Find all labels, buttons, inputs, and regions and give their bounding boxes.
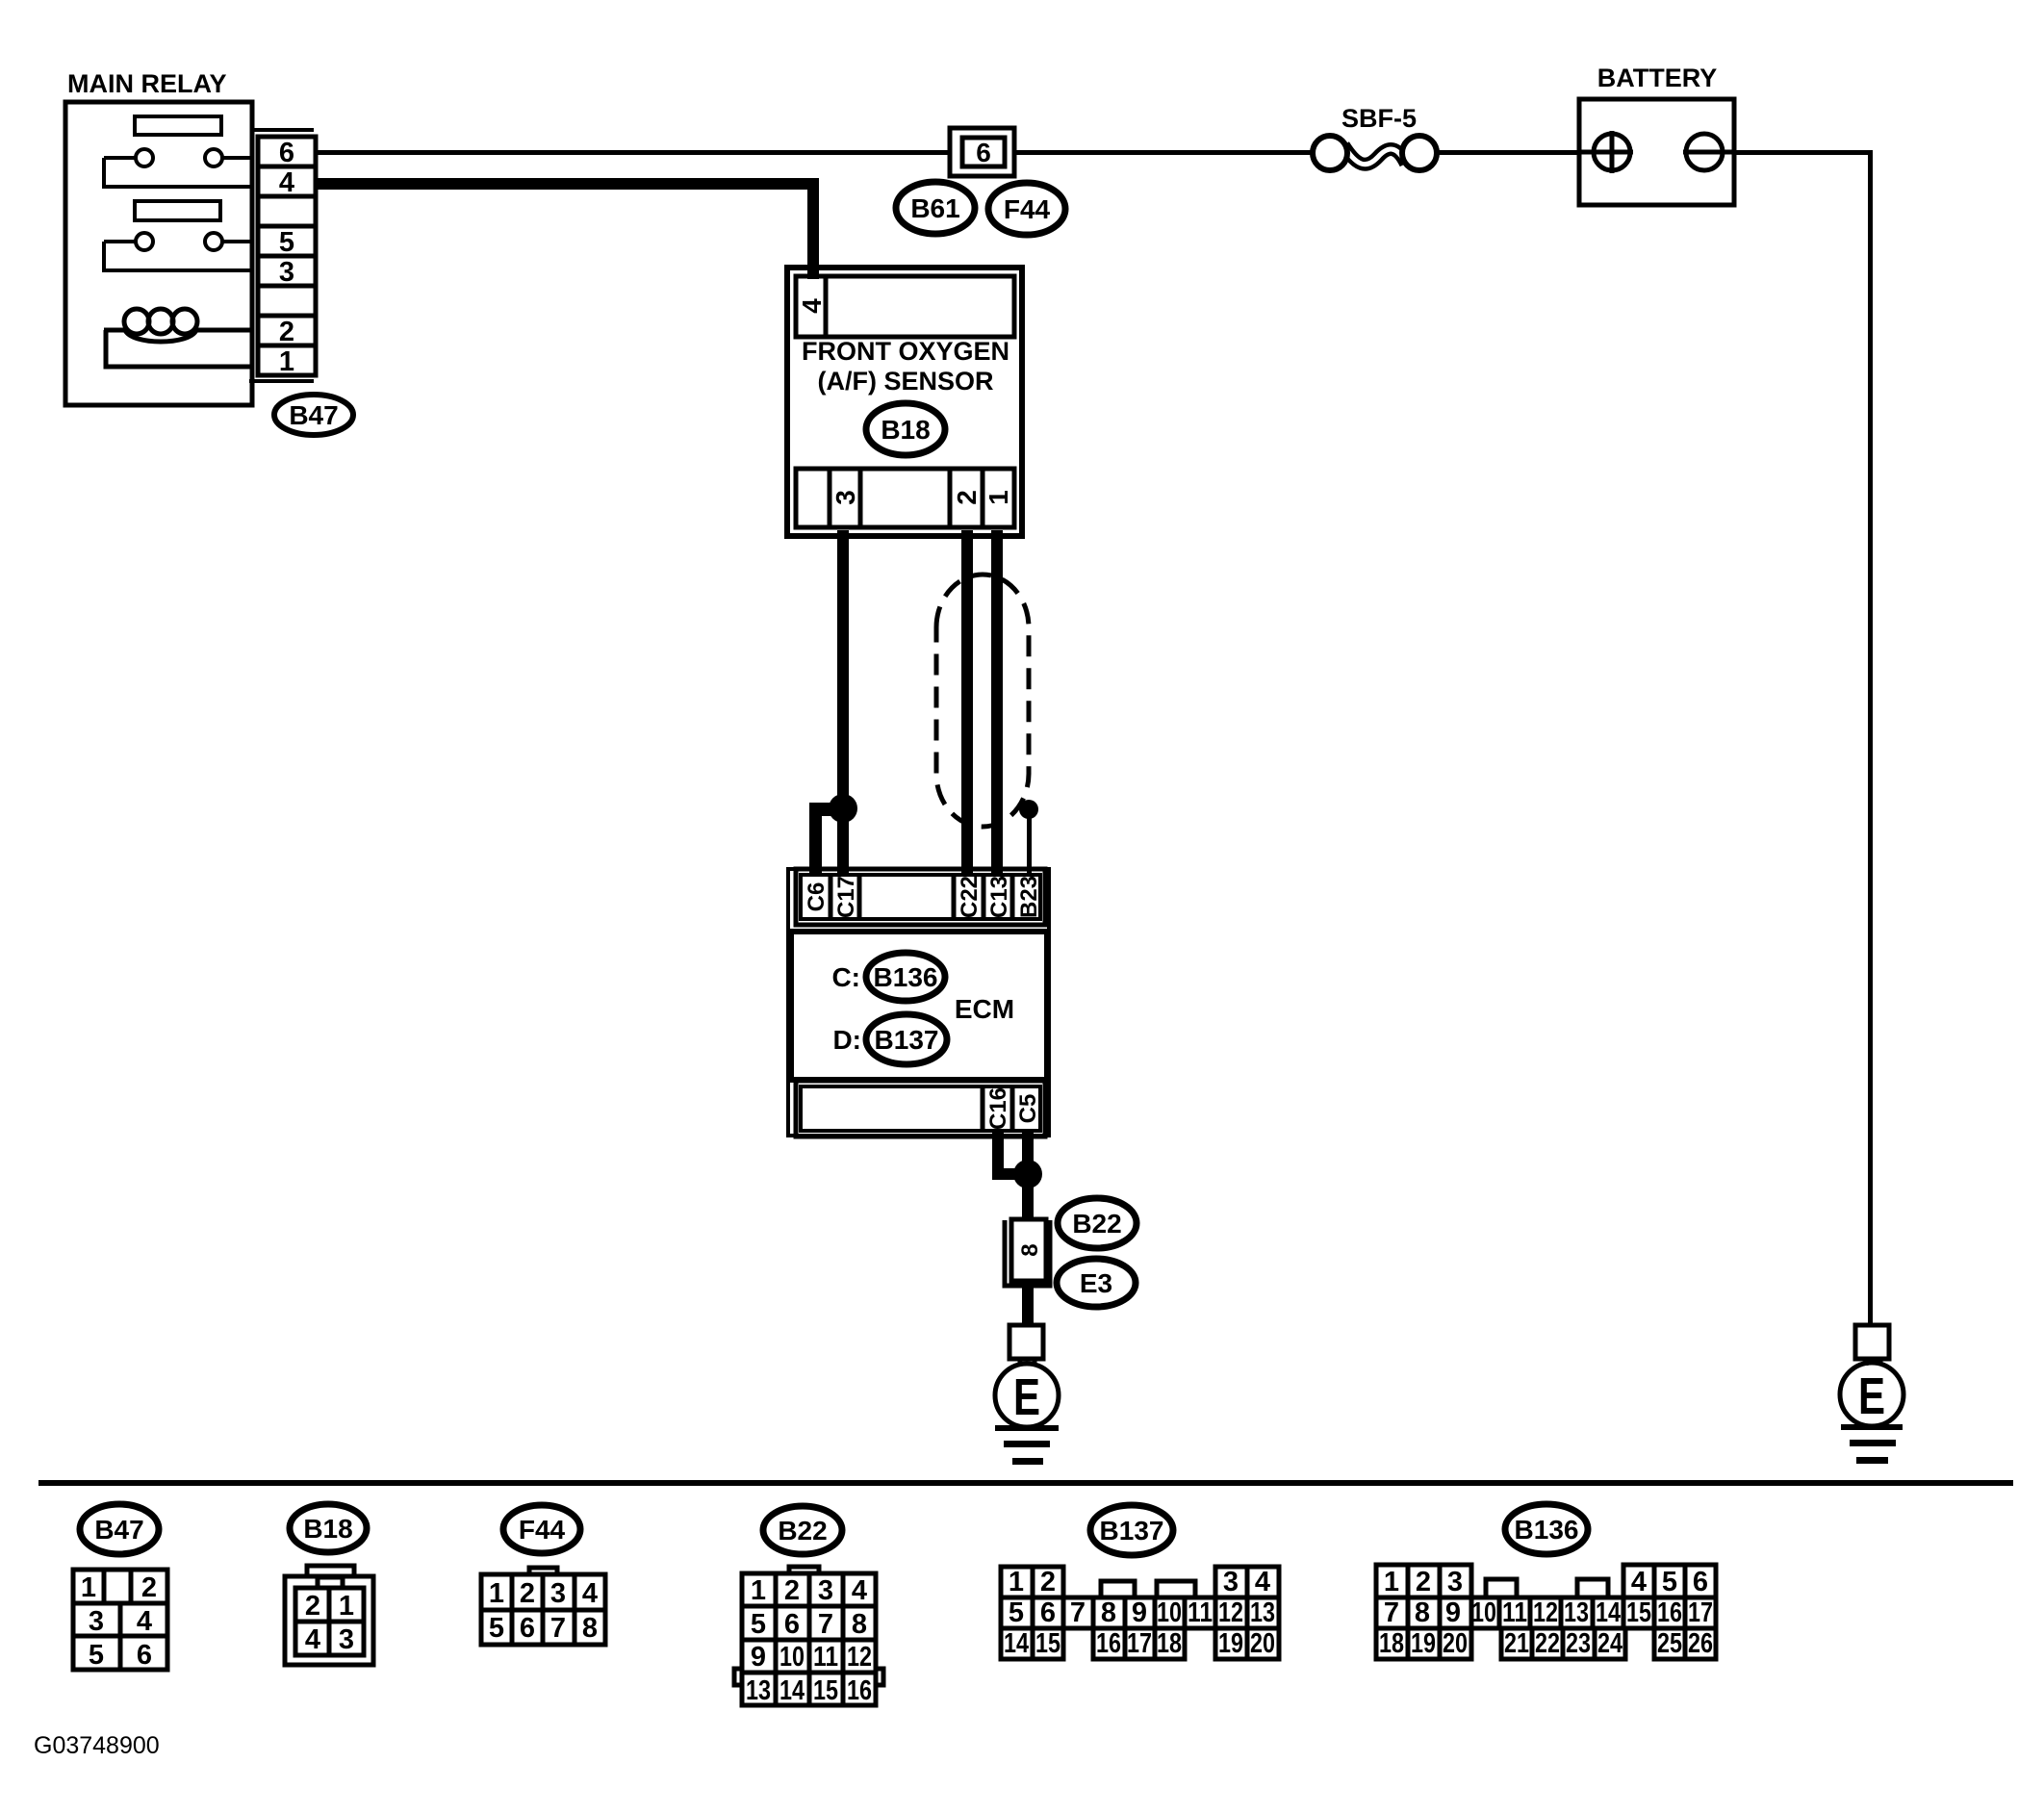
wire C16 bend to junction — [992, 1168, 1028, 1180]
fuse SBF-5 — [1313, 136, 1437, 170]
svg-text:15: 15 — [1626, 1597, 1651, 1628]
wire branch to C6 — [809, 803, 848, 816]
svg-text:26: 26 — [1688, 1628, 1713, 1659]
svg-text:3: 3 — [89, 1606, 104, 1637]
svg-text:13: 13 — [1564, 1597, 1589, 1628]
svg-text:2: 2 — [520, 1578, 535, 1609]
ground E (right) — [1840, 1325, 1903, 1426]
svg-text:2: 2 — [305, 1591, 320, 1622]
svg-text:14: 14 — [779, 1675, 805, 1706]
svg-text:MAIN RELAY: MAIN RELAY — [67, 69, 227, 98]
wire battery to right ground — [1734, 150, 1873, 155]
svg-text:3: 3 — [550, 1578, 566, 1609]
svg-text:B136: B136 — [1515, 1515, 1579, 1545]
sensor top pin strip — [796, 276, 1014, 337]
connector B137 pin face — [1001, 1567, 1279, 1659]
svg-text:B47: B47 — [289, 400, 338, 430]
svg-text:E: E — [1013, 1368, 1040, 1426]
svg-text:22: 22 — [1535, 1628, 1560, 1659]
svg-text:4: 4 — [797, 298, 827, 314]
wire connector6 to fuse — [1014, 150, 1313, 155]
svg-text:4: 4 — [1255, 1567, 1270, 1597]
svg-text:18: 18 — [1157, 1628, 1182, 1659]
battery negative terminal — [1683, 134, 1734, 170]
svg-text:8: 8 — [1101, 1597, 1116, 1628]
svg-text:3: 3 — [818, 1575, 833, 1606]
svg-text:8: 8 — [852, 1609, 867, 1640]
ECM bottom pin strip — [796, 1081, 1045, 1137]
svg-text:4: 4 — [1631, 1567, 1647, 1597]
svg-text:B18: B18 — [303, 1514, 352, 1544]
connector B47 pin face — [73, 1570, 167, 1670]
svg-text:9: 9 — [1132, 1597, 1147, 1628]
inline connector 8 (B22/E3) — [1005, 1220, 1050, 1286]
svg-text:5: 5 — [751, 1609, 766, 1640]
svg-text:11: 11 — [1188, 1597, 1213, 1628]
svg-text:BATTERY: BATTERY — [1597, 64, 1718, 92]
svg-text:5: 5 — [489, 1613, 504, 1644]
connector oval B22 — [1058, 1198, 1137, 1248]
wire C5 down — [1022, 1131, 1034, 1220]
connector oval B137 (bottom) — [1090, 1505, 1173, 1555]
svg-text:C17: C17 — [833, 876, 859, 918]
battery positive terminal — [1579, 131, 1633, 173]
svg-text:5: 5 — [1662, 1567, 1677, 1597]
svg-text:4: 4 — [852, 1575, 867, 1606]
svg-text:9: 9 — [1445, 1597, 1461, 1628]
svg-text:C13: C13 — [986, 876, 1012, 918]
svg-text:2: 2 — [784, 1575, 800, 1606]
ground E (center) — [995, 1325, 1059, 1427]
svg-text:10: 10 — [1471, 1597, 1496, 1628]
connector oval B47 — [274, 395, 353, 435]
svg-text:C5: C5 — [1015, 1094, 1041, 1124]
wire sensor pin1 to ECM C13 — [991, 530, 1003, 875]
svg-text:B136: B136 — [874, 962, 938, 992]
relay fixed contact bar 1 — [135, 116, 221, 135]
svg-text:4: 4 — [582, 1578, 598, 1609]
svg-text:3: 3 — [1447, 1567, 1463, 1597]
svg-text:E: E — [1858, 1367, 1885, 1425]
svg-text:16: 16 — [1096, 1628, 1121, 1659]
front oxygen sensor box B18 — [787, 268, 1022, 536]
svg-text:11: 11 — [1502, 1597, 1527, 1628]
connector B18 pin face — [285, 1566, 373, 1665]
svg-text:C16: C16 — [985, 1087, 1011, 1130]
svg-text:13: 13 — [746, 1675, 771, 1706]
wire connector8 to ground — [1022, 1282, 1034, 1325]
svg-text:13: 13 — [1250, 1597, 1275, 1628]
connector B136 pin face — [1376, 1565, 1716, 1659]
svg-text:11: 11 — [813, 1642, 838, 1673]
inline connector 6 (B61/F44) — [950, 128, 1014, 176]
svg-text:3: 3 — [339, 1624, 354, 1655]
svg-text:19: 19 — [1411, 1628, 1436, 1659]
svg-text:8: 8 — [1415, 1597, 1430, 1628]
svg-text:7: 7 — [550, 1613, 566, 1644]
svg-text:C22: C22 — [957, 876, 983, 918]
svg-text:12: 12 — [1533, 1597, 1558, 1628]
connector oval F44 (bottom) — [503, 1505, 580, 1553]
svg-text:8: 8 — [1017, 1243, 1043, 1256]
svg-text:1: 1 — [489, 1578, 504, 1609]
shield drain junction node — [1019, 800, 1038, 819]
svg-text:6: 6 — [1693, 1567, 1708, 1597]
svg-text:E3: E3 — [1080, 1268, 1112, 1298]
svg-text:17: 17 — [1688, 1597, 1713, 1628]
svg-text:6: 6 — [137, 1640, 152, 1671]
svg-text:B137: B137 — [875, 1025, 939, 1055]
svg-text:B18: B18 — [881, 415, 930, 445]
svg-text:2: 2 — [279, 317, 294, 347]
svg-text:7: 7 — [818, 1609, 833, 1640]
svg-text:5: 5 — [89, 1640, 104, 1671]
svg-text:SBF-5: SBF-5 — [1341, 104, 1417, 133]
svg-text:10: 10 — [1157, 1597, 1182, 1628]
svg-text:1: 1 — [1384, 1567, 1399, 1597]
svg-text:4: 4 — [279, 167, 294, 198]
connector oval F44 — [988, 183, 1065, 235]
svg-text:14: 14 — [1004, 1628, 1029, 1659]
svg-text:15: 15 — [1035, 1628, 1060, 1659]
battery BAT1 box — [1579, 99, 1734, 205]
sensor pin 4 cell — [824, 276, 829, 337]
svg-text:B22: B22 — [778, 1516, 827, 1546]
svg-text:14: 14 — [1596, 1597, 1621, 1628]
svg-text:2: 2 — [1416, 1567, 1431, 1597]
svg-text:C:: C: — [831, 962, 860, 992]
connector B47 pin box — [258, 137, 316, 375]
connector B22 pin face — [734, 1567, 883, 1705]
wire sensor pin2 to ECM C22 — [961, 530, 973, 875]
svg-text:6: 6 — [1040, 1597, 1056, 1628]
svg-text:B22: B22 — [1072, 1209, 1121, 1239]
relay fixed contact bar 2 — [135, 201, 220, 220]
svg-text:1: 1 — [81, 1572, 96, 1603]
svg-text:5: 5 — [1009, 1597, 1024, 1628]
svg-text:15: 15 — [813, 1675, 838, 1706]
svg-text:B61: B61 — [910, 193, 959, 223]
relay K1 box — [65, 102, 252, 405]
svg-text:12: 12 — [1218, 1597, 1243, 1628]
junction node ground wire — [1013, 1160, 1042, 1188]
svg-text:(A/F) SENSOR: (A/F) SENSOR — [817, 367, 993, 396]
wire bend down to sensor pin 4 — [807, 178, 819, 279]
wire fuse to battery — [1437, 150, 1579, 155]
wire pin4 thick to sensor — [316, 178, 819, 190]
svg-text:F44: F44 — [1004, 194, 1051, 224]
svg-text:6: 6 — [784, 1609, 800, 1640]
svg-text:B23: B23 — [1016, 876, 1042, 918]
svg-text:21: 21 — [1504, 1628, 1529, 1659]
svg-text:2: 2 — [1040, 1567, 1056, 1597]
svg-text:23: 23 — [1566, 1628, 1591, 1659]
svg-text:24: 24 — [1597, 1628, 1622, 1659]
ECM U1 main box — [791, 932, 1047, 1080]
svg-text:19: 19 — [1218, 1628, 1243, 1659]
connector oval B22 (bottom) — [763, 1506, 842, 1554]
relay contact set 1 — [104, 149, 252, 187]
svg-text:16: 16 — [1657, 1597, 1682, 1628]
wire pin6 to connector 6 — [316, 150, 950, 155]
svg-text:ECM: ECM — [955, 994, 1014, 1024]
wire sensor pin3 to ECM C17 — [837, 530, 849, 875]
connector oval B18 — [866, 403, 945, 455]
connector oval B136 — [866, 953, 945, 1001]
ECM top pin strip — [796, 869, 1045, 925]
wire shield drain to B23 — [1027, 809, 1032, 875]
svg-text:7: 7 — [1070, 1597, 1086, 1628]
connector oval B47 (bottom) — [80, 1504, 159, 1554]
svg-text:10: 10 — [779, 1642, 805, 1673]
svg-text:2: 2 — [141, 1572, 157, 1603]
connector F44 pin face — [481, 1568, 605, 1645]
svg-text:17: 17 — [1127, 1628, 1152, 1659]
svg-text:B47: B47 — [94, 1515, 143, 1545]
svg-text:F44: F44 — [519, 1515, 566, 1545]
svg-text:C6: C6 — [804, 882, 830, 912]
svg-text:2: 2 — [952, 490, 982, 505]
svg-text:20: 20 — [1443, 1628, 1468, 1659]
svg-text:6: 6 — [976, 138, 991, 167]
svg-text:1: 1 — [1009, 1567, 1024, 1597]
svg-text:D:: D: — [832, 1025, 861, 1055]
relay coil — [104, 309, 252, 367]
svg-text:4: 4 — [137, 1606, 152, 1637]
svg-text:1: 1 — [279, 346, 294, 377]
svg-text:3: 3 — [279, 257, 294, 288]
svg-text:5: 5 — [279, 227, 294, 258]
junction node sensor signal — [829, 794, 857, 823]
separator line — [38, 1480, 2013, 1486]
svg-text:4: 4 — [305, 1624, 320, 1655]
connector oval B136 (bottom) — [1505, 1504, 1588, 1554]
svg-text:9: 9 — [751, 1642, 766, 1673]
connector oval E3 — [1057, 1259, 1136, 1307]
svg-text:12: 12 — [847, 1642, 872, 1673]
connector B47 shell — [249, 130, 314, 381]
svg-text:3: 3 — [830, 490, 860, 505]
svg-text:8: 8 — [582, 1613, 598, 1644]
svg-text:7: 7 — [1384, 1597, 1399, 1628]
svg-text:G03748900: G03748900 — [34, 1732, 160, 1759]
svg-text:18: 18 — [1379, 1628, 1404, 1659]
svg-text:6: 6 — [520, 1613, 535, 1644]
svg-text:3: 3 — [1223, 1567, 1239, 1597]
svg-text:FRONT OXYGEN: FRONT OXYGEN — [802, 337, 1009, 366]
svg-text:16: 16 — [847, 1675, 872, 1706]
connector oval B137 — [866, 1014, 947, 1064]
ECM outer enclosure — [788, 869, 1049, 1136]
svg-text:6: 6 — [279, 138, 294, 168]
svg-text:1: 1 — [984, 490, 1013, 505]
relay contact set 2 — [104, 233, 252, 270]
svg-text:20: 20 — [1250, 1628, 1275, 1659]
connector oval B61 — [896, 182, 975, 234]
svg-text:1: 1 — [751, 1575, 766, 1606]
sensor bottom pin strip — [796, 469, 1014, 527]
connector oval B18 (bottom) — [290, 1504, 367, 1552]
svg-text:B137: B137 — [1100, 1516, 1164, 1546]
svg-text:25: 25 — [1657, 1628, 1682, 1659]
shield around sensor wires — [936, 575, 1029, 827]
svg-text:1: 1 — [339, 1591, 354, 1622]
wire C16 down — [992, 1131, 1004, 1180]
